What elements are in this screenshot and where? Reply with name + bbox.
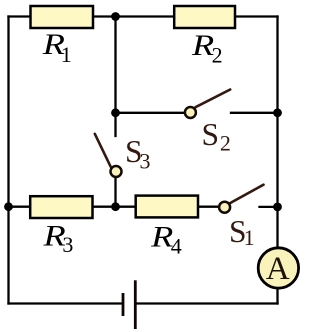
svg-text:4: 4 bbox=[171, 234, 182, 259]
svg-text:R: R bbox=[150, 220, 173, 253]
svg-text:S: S bbox=[202, 117, 220, 152]
svg-text:3: 3 bbox=[140, 149, 151, 174]
svg-text:1: 1 bbox=[61, 42, 72, 67]
svg-text:3: 3 bbox=[62, 232, 73, 257]
svg-text:2: 2 bbox=[220, 130, 231, 155]
svg-text:2: 2 bbox=[212, 43, 223, 68]
svg-text:1: 1 bbox=[244, 225, 255, 250]
svg-text:A: A bbox=[266, 251, 290, 287]
